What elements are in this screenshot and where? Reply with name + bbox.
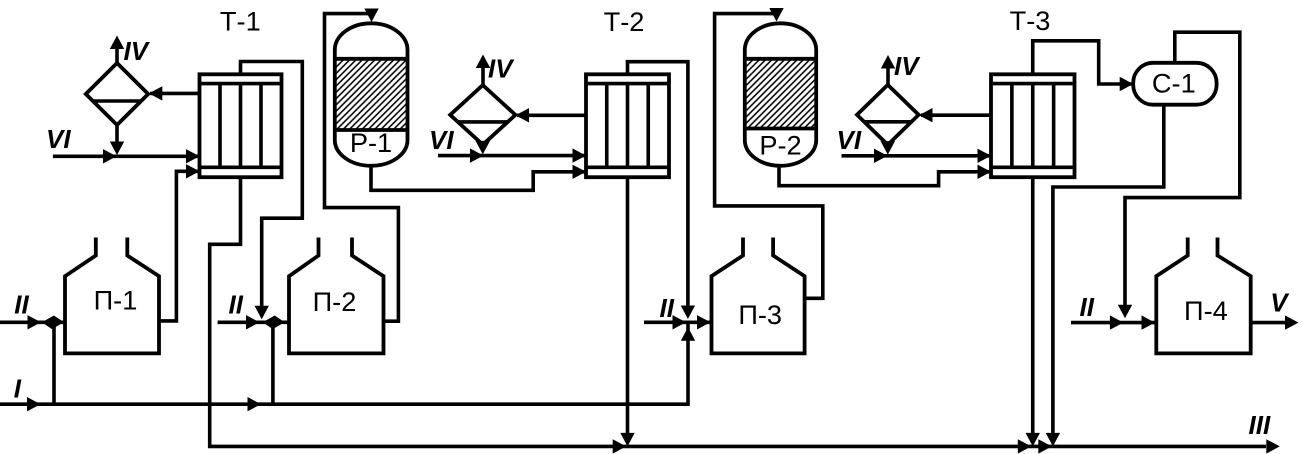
svg-text:III: III bbox=[1249, 410, 1271, 440]
svg-text:Р-1: Р-1 bbox=[350, 127, 392, 158]
svg-text:V: V bbox=[1270, 287, 1290, 317]
svg-text:П-4: П-4 bbox=[1184, 295, 1228, 326]
svg-text:IV: IV bbox=[124, 36, 151, 66]
svg-text:VI: VI bbox=[429, 125, 454, 155]
svg-text:II: II bbox=[660, 293, 675, 323]
svg-text:VI: VI bbox=[46, 124, 71, 154]
svg-text:П-1: П-1 bbox=[94, 285, 138, 316]
svg-text:VI: VI bbox=[837, 125, 862, 155]
svg-text:IV: IV bbox=[488, 53, 515, 83]
svg-text:Т-3: Т-3 bbox=[1010, 5, 1051, 36]
svg-text:Р-2: Р-2 bbox=[759, 129, 801, 160]
svg-text:Т-2: Т-2 bbox=[604, 6, 645, 37]
svg-text:II: II bbox=[1080, 292, 1095, 322]
svg-text:IV: IV bbox=[894, 51, 921, 81]
svg-text:П-2: П-2 bbox=[313, 286, 357, 317]
svg-text:Т-1: Т-1 bbox=[220, 6, 261, 37]
svg-text:II: II bbox=[14, 290, 29, 320]
svg-text:П-3: П-3 bbox=[738, 299, 782, 330]
svg-text:I: I bbox=[14, 373, 22, 403]
svg-text:II: II bbox=[229, 290, 244, 320]
svg-text:С-1: С-1 bbox=[1152, 67, 1196, 98]
